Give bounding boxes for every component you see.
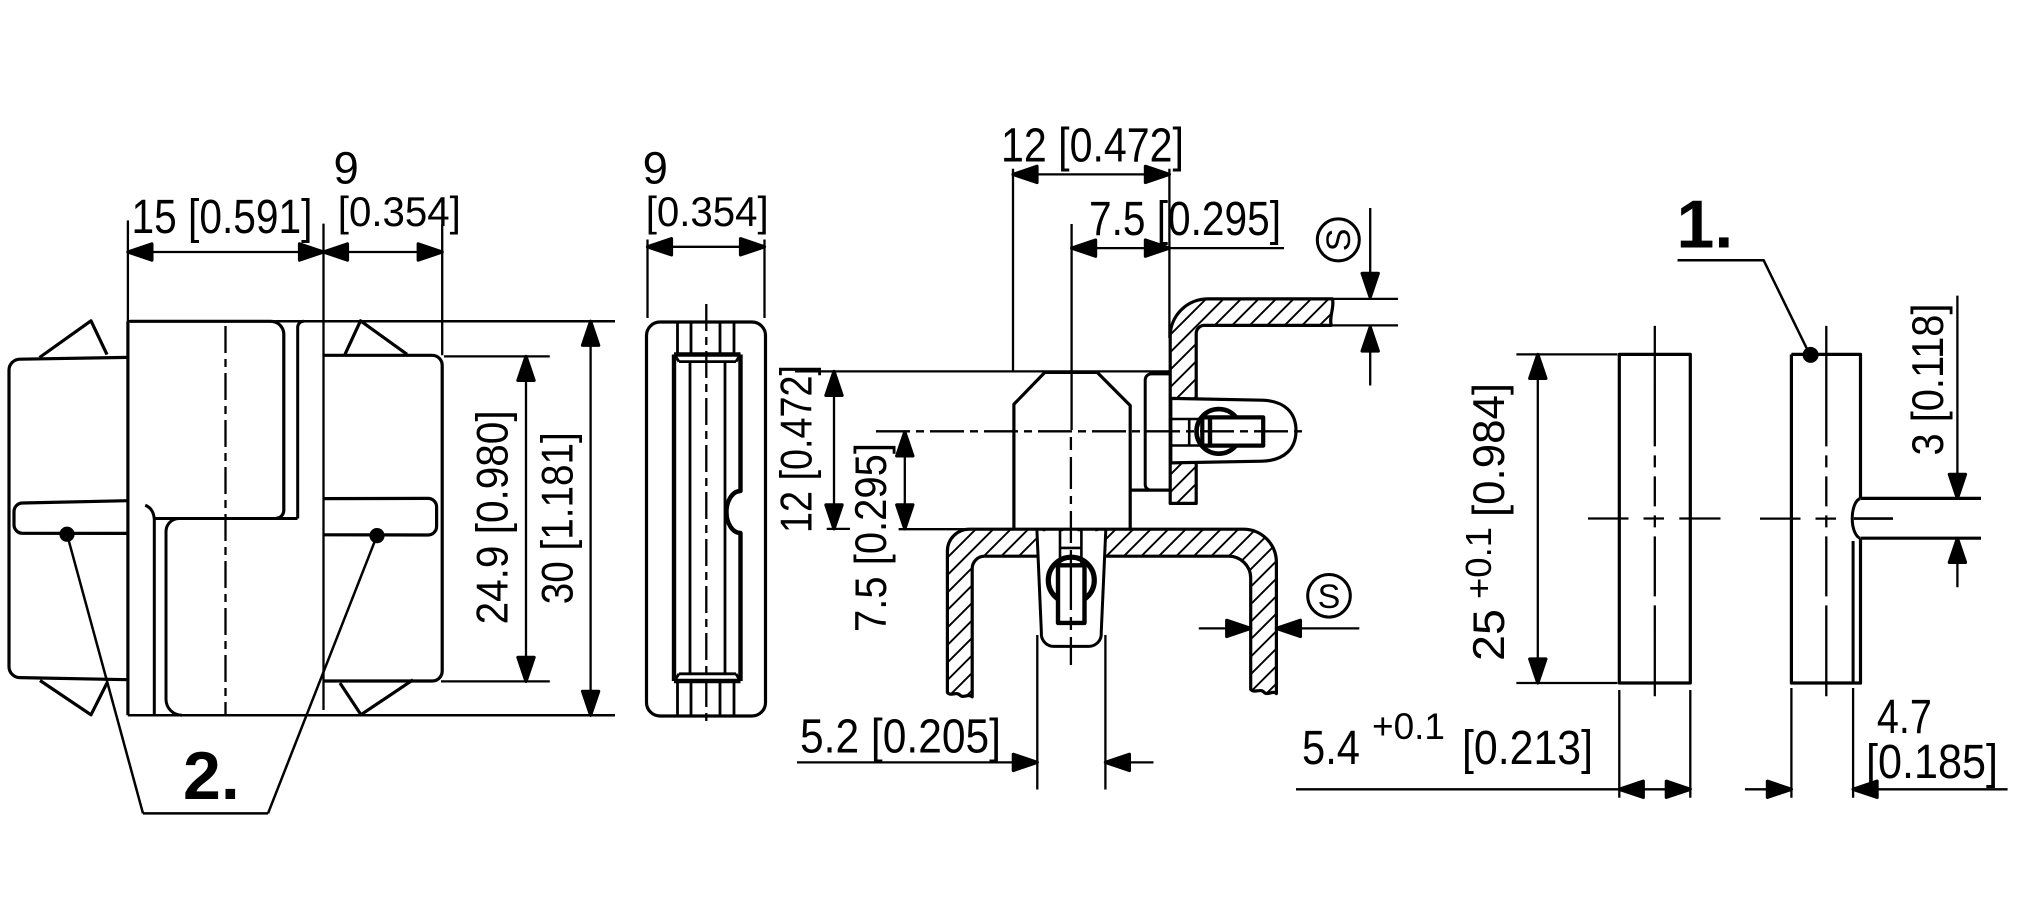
ext lines 25 dim (1516, 354, 1617, 683)
dimension line 30 (589, 321, 591, 715)
center ticks right rect (1760, 517, 1836, 519)
dimension line 24.9 (525, 356, 527, 681)
extension line 24.9 bottom (441, 680, 550, 682)
svg-text:3 [0.118]: 3 [0.118] (1904, 304, 1953, 456)
extension lines 9 dim (648, 240, 765, 319)
slider front rect (1619, 354, 1690, 683)
latch wedge bottom-left (40, 681, 107, 715)
upper flange sheet metal (hatched) (1170, 299, 1333, 504)
svg-text:15 [0.591]: 15 [0.591] (132, 190, 313, 244)
extension line middle (15/9 dim) (322, 224, 324, 710)
latch wedge top-left (40, 321, 108, 358)
latch wedge top-right (345, 321, 407, 355)
leader line right for note 2 (268, 536, 377, 814)
dimension line 4.7 left arrow (1745, 788, 1791, 790)
svg-text:7.5 [0.295]: 7.5 [0.295] (1089, 192, 1281, 246)
pin barrel circle (thick) (1048, 557, 1094, 603)
outer profile rounded rect (647, 322, 766, 716)
pin sleeve white fill (1037, 531, 1106, 646)
inner box right edge with notch (727, 355, 741, 682)
upper flange thickness ext lines (1331, 299, 1398, 326)
ext lines 4.7 (1791, 688, 1853, 798)
extension line left (15 dim) (127, 220, 129, 321)
dimension line 7.5 top (1072, 247, 1284, 249)
svg-text:12 [0.472]: 12 [0.472] (773, 365, 822, 533)
tick ext 12 left bottom (827, 528, 850, 530)
pin sleeve outline (1037, 530, 1106, 647)
centerline vertical (705, 304, 707, 727)
svg-text:+0.1: +0.1 (1372, 706, 1445, 747)
bevel top edge (679, 360, 736, 363)
centerline vertical (224, 326, 226, 714)
svg-text:24.9 [0.980]: 24.9 [0.980] (469, 410, 518, 624)
dimension line 5.4 (1296, 788, 1690, 790)
extension/outline top line (128, 320, 615, 323)
inner box bottom edge (674, 679, 741, 683)
inner cavity wall (166, 519, 182, 716)
centerline vertical left rect (1654, 326, 1656, 696)
extension/outline bottom line (128, 714, 615, 717)
svg-text:S: S (1320, 229, 1358, 252)
pin root bump (1852, 499, 1860, 539)
dimension line 15 / 9 (128, 251, 442, 253)
dimension line 5.2 left part (797, 761, 1037, 763)
horizontal centerline latch axis (876, 430, 1305, 432)
extension line over body top (795, 370, 1170, 372)
svg-text:2.: 2. (183, 738, 240, 814)
bevel bottom edge (679, 672, 736, 675)
upper flange thickness dim arrows (1369, 208, 1371, 386)
shelf edge (154, 517, 297, 520)
svg-text:12 [0.472]: 12 [0.472] (1001, 119, 1184, 173)
svg-text:30 [1.181]: 30 [1.181] (533, 432, 582, 604)
ext lines 5.4 (1619, 690, 1690, 798)
flange top extension line left (899, 528, 966, 530)
svg-text:1.: 1. (1677, 187, 1734, 263)
dimension 3 vertical (1956, 296, 1958, 588)
leader dot note 1 (1803, 347, 1819, 363)
housing body left edge (126, 321, 129, 715)
S symbol lower (1308, 575, 1351, 618)
lower flange bracket (hatched) (947, 529, 1276, 697)
rivet collar line (thick) (1208, 417, 1212, 445)
svg-text:5.4: 5.4 (1302, 721, 1360, 775)
inner box top edge (674, 352, 741, 356)
right bar dot (369, 528, 384, 543)
inner box left edge (672, 355, 676, 682)
dimension line 25 (1537, 354, 1539, 683)
housing body outline (1014, 372, 1130, 529)
left bushing (9, 357, 128, 679)
housing body top edge and right wall (130, 321, 284, 518)
slider side rect (1791, 354, 1860, 683)
dimension line 4.7 right arrow (1853, 788, 2008, 790)
extension line 12/7.5 top right (1168, 169, 1170, 338)
dimension line 9 (648, 246, 765, 248)
extension line 12 top left (1012, 169, 1014, 372)
svg-text:5.2 [0.205]: 5.2 [0.205] (800, 710, 1001, 764)
center ticks left rect (1588, 517, 1721, 519)
leg thickness dim arrows (1199, 627, 1251, 629)
right bushing (324, 355, 443, 681)
svg-text:9: 9 (643, 142, 668, 193)
svg-text:[0.354]: [0.354] (338, 188, 461, 235)
locking tongue (1145, 374, 1171, 490)
ext lines 5.2 (1037, 635, 1105, 790)
top rib lines (678, 323, 735, 355)
slider inner face line (1852, 541, 1855, 683)
bottom rib lines (678, 681, 735, 716)
svg-text:[0.185]: [0.185] (1866, 735, 1998, 789)
slot right wall (724, 362, 727, 674)
dimension line 5.2 right part (1105, 761, 1153, 763)
svg-text:S: S (1318, 578, 1341, 616)
svg-text:[0.354]: [0.354] (646, 188, 769, 235)
extension line 24.9 top (444, 355, 550, 357)
solder pin top/bottom edges (1861, 498, 1981, 538)
pin mid line (1854, 517, 1893, 520)
extension line 7.5 (pin axis) (1070, 224, 1072, 430)
rivet shank lines (1171, 419, 1202, 446)
latch wedge bottom-right (340, 680, 413, 715)
rivet body rect (thick) (1202, 417, 1263, 445)
S symbol upper (rotated) (1317, 219, 1359, 261)
slot left wall (689, 362, 692, 674)
svg-text:[0.213]: [0.213] (1462, 721, 1593, 775)
rivet head circle (thick) (1197, 409, 1242, 454)
latch tab (1171, 398, 1296, 463)
rib strip left edge (298, 321, 304, 518)
centerline vertical right rect (1825, 326, 1827, 696)
leader bottom line (143, 812, 268, 815)
svg-text:9: 9 (334, 142, 359, 193)
leader line for note 1 (1678, 260, 1809, 352)
dimension line 12 left (833, 371, 835, 529)
body step edge (1130, 489, 1169, 492)
left contact bar (14, 501, 128, 534)
dimension line 12 top (1013, 173, 1169, 175)
bevel corner diagonals (675, 355, 740, 680)
slider bottom edge overhang (1861, 681, 1862, 684)
left bar dot (59, 527, 74, 542)
leader line left for note 2 (67, 534, 143, 813)
extension line right (9 dim) (441, 225, 443, 356)
dimension line 7.5 left (904, 432, 906, 529)
pin upper lines (1060, 530, 1081, 566)
pin body rect (thick) (1058, 565, 1085, 623)
hook edge (145, 505, 154, 715)
right contact bar (324, 498, 437, 535)
svg-text:7.5 [0.295]: 7.5 [0.295] (847, 443, 896, 632)
pin centerline vertical (1070, 437, 1072, 665)
